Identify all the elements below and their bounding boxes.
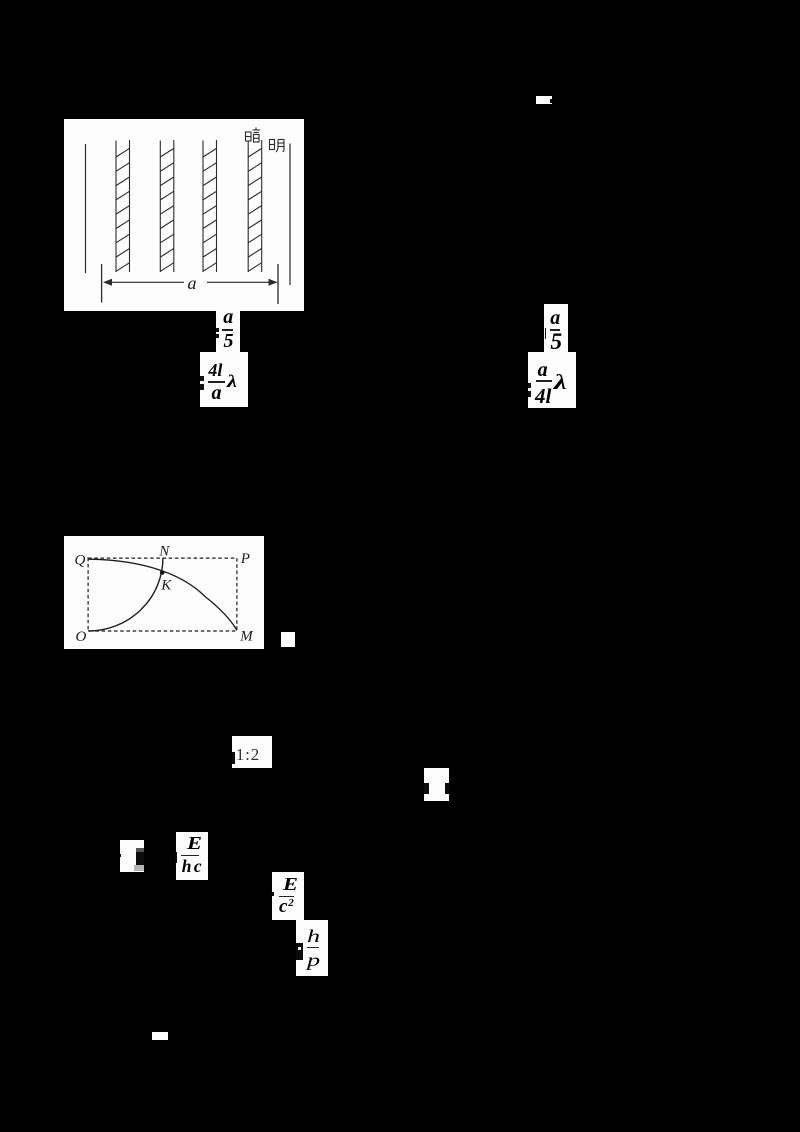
fraction bar [307, 947, 320, 949]
denominator c [279, 896, 287, 918]
denominator 5 [223, 330, 233, 353]
dark fringe stripe 3 [203, 140, 217, 272]
formula patch E/hc [176, 832, 208, 880]
superscript 2 [288, 897, 294, 909]
svg-text:K: K [160, 577, 172, 593]
formula patch h/p [296, 920, 328, 975]
patch with ratio 1 : 2 [232, 736, 272, 768]
numerator 4l [208, 360, 222, 381]
fraction bar [208, 381, 225, 383]
white patch with glyph fragments (right middle) [424, 768, 449, 801]
black bar fragment at left edge [175, 852, 177, 863]
numerator h [307, 926, 320, 947]
fragment of covered glyph [200, 376, 204, 382]
denominator hc [182, 856, 204, 877]
fraction bar [181, 855, 198, 857]
white patch with dark glyph (left of E/hc) [120, 840, 144, 872]
point K dot [159, 570, 164, 575]
svg-text:P: P [239, 550, 249, 566]
denominator p [307, 950, 320, 971]
formula patch a/5 (left column) [216, 311, 240, 352]
fragment of covered glyph [232, 752, 236, 764]
curve O to N [88, 558, 163, 631]
curve Q to M [88, 559, 236, 630]
fragment line of covered glyph [545, 328, 547, 339]
dark fringe stripe 1 [116, 140, 130, 272]
svg-text:Q: Q [74, 552, 85, 568]
dimension arrow a (right part) [207, 281, 277, 283]
numerator E [187, 833, 202, 854]
fraction bar [222, 329, 233, 331]
small white square right of figure 2 [281, 632, 296, 647]
denominator 4l [535, 384, 551, 409]
label 暗 (dark) hand-drawn [246, 128, 261, 143]
denominator 5 [550, 329, 562, 356]
small white rect top right area [536, 96, 552, 104]
svg-text:M: M [239, 628, 254, 644]
numerator a [538, 359, 548, 382]
svg-text:a: a [188, 273, 197, 293]
measurement tick left [101, 264, 103, 303]
bright fringe line left [85, 144, 87, 273]
λ [554, 370, 567, 395]
numerator a [550, 307, 560, 330]
black blob fragment at left edge [271, 892, 274, 896]
formula patch a/5 (right column) [544, 304, 568, 353]
dimension arrow a (left part) [105, 281, 185, 283]
fragment of covered glyph [528, 383, 531, 389]
label 明 (bright) hand-drawn [270, 140, 285, 153]
figure: projectile / circular path box QNPKOM [64, 536, 264, 649]
numerator E [283, 874, 298, 895]
figure: diffraction fringe pattern box [64, 119, 304, 311]
formula patch 4l/a λ (left column) [200, 352, 248, 408]
fragment of covered glyph [216, 328, 219, 332]
formula patch a/4l λ (right column) [528, 352, 576, 408]
λ [227, 371, 237, 392]
dashed rectangle OQPM [88, 558, 237, 631]
bright fringe line right [289, 144, 291, 286]
fraction bar [550, 329, 560, 331]
small white rect bottom left [152, 1032, 168, 1040]
denominator a [211, 382, 221, 405]
fraction bar [536, 380, 552, 382]
formula patch E/c2 [272, 872, 304, 920]
svg-text:N: N [158, 543, 170, 559]
numerator a [223, 306, 233, 329]
dark glyph fragment at left edge [296, 943, 304, 960]
dark fringe stripe 2 [160, 140, 174, 272]
measurement tick right [277, 264, 279, 304]
svg-text:O: O [75, 628, 86, 644]
dark fringe stripe 4 [248, 140, 262, 272]
fraction bar [279, 896, 295, 898]
